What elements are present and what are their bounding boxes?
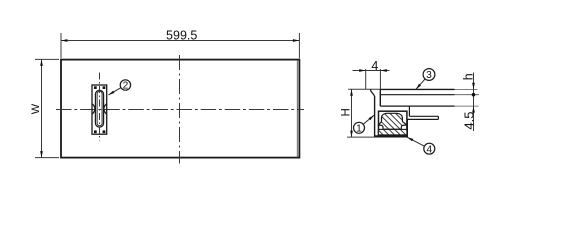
frame arm top (409, 115, 438, 117)
svg-text:W: W (30, 103, 42, 114)
corner dot TR (103, 86, 106, 89)
frame outer wall (374, 96, 376, 137)
balloon circle item 1 (354, 122, 365, 133)
leader arrowhead for balloon 2 (109, 91, 115, 95)
leader arrowhead for balloon 3 (416, 84, 421, 89)
right side arc (104, 104, 107, 114)
balloon circle item 2 (120, 80, 130, 90)
terminator dot between dims h and 4.5 (472, 93, 476, 97)
svg-text:1: 1 (356, 123, 362, 134)
dimension line 599.5 (61, 40, 299, 42)
frame bottom extension (left, for H) (347, 136, 375, 138)
svg-text:H: H (341, 108, 353, 116)
leader arrowhead for balloon 4 (407, 137, 413, 141)
frame chamfer corner (371, 89, 375, 96)
extension line right for dim 599.5 (298, 33, 300, 58)
extension stub from sheet bottom face (455, 94, 480, 96)
arrowhead left of dim 4 (359, 69, 366, 72)
balloon circle item 4 (424, 143, 435, 154)
leader line for balloon 4 (407, 137, 424, 146)
slot outer stadium (95, 90, 103, 127)
gasket channel box (379, 111, 407, 135)
svg-text:3: 3 (426, 70, 432, 81)
dimension line H (351, 89, 353, 137)
slot vertical centerline (99, 73, 101, 141)
svg-text:599.5: 599.5 (166, 29, 197, 43)
corner dot TL (94, 86, 97, 89)
leader line for balloon 2 (109, 88, 121, 95)
corner dot BR (103, 130, 106, 133)
sheet item 3 top face (380, 88, 454, 90)
arrowhead bottom of dim W (40, 151, 43, 158)
sheet item 3 bottom face (381, 94, 455, 96)
arrowhead of dim h (472, 83, 475, 90)
balloon circle item 3 (423, 69, 435, 81)
gasket base hatched (378, 129, 407, 135)
svg-text:4: 4 (371, 59, 378, 73)
dimension line h and 4.5 (473, 73, 475, 132)
arrowhead left of dim 599.5 (61, 39, 68, 42)
frame arm end cap (437, 116, 439, 119)
arrowhead right of dim 4 (380, 69, 387, 72)
frame bottom (thick) (375, 135, 408, 137)
arrowhead top of dim H (350, 89, 353, 96)
inner edge line (right side) (296, 60, 298, 157)
vertical centerline (179, 55, 181, 164)
arrowhead of dim 4.5 (472, 106, 475, 113)
dimension line W (41, 59, 43, 157)
arrowhead right of dim 599.5 (293, 39, 300, 42)
panel bottom face (380, 105, 454, 107)
slot inner stadium (97, 91, 102, 125)
leader line for balloon 1 (363, 115, 374, 124)
extension line left for dim 4 (365, 69, 367, 89)
svg-text:4.5: 4.5 (462, 112, 477, 130)
extension line top for dim W (35, 58, 59, 60)
svg-text:h: h (462, 73, 476, 80)
frame right wall (406, 119, 408, 137)
corner dot BL (94, 130, 97, 133)
frame web (ledge to arm) (408, 106, 410, 116)
inner wall / sheet left end (379, 89, 381, 106)
leader line for balloon 3 (416, 79, 425, 89)
extension stub from panel bottom face (455, 105, 479, 107)
extension line left for dim 599.5 (60, 33, 62, 58)
svg-text:4: 4 (426, 144, 432, 155)
arrowhead bottom of dim H (350, 131, 353, 138)
frame arm bottom (407, 118, 438, 120)
leader arrowhead for balloon 1 (369, 115, 375, 120)
svg-text:2: 2 (123, 81, 129, 92)
slot detail (item 2) outer rect (92, 85, 107, 134)
extension stub from sheet top face (455, 88, 478, 90)
extension line right for dim 4 (379, 69, 381, 89)
arrowhead top of dim W (40, 59, 43, 66)
top line / H extension + frame top (348, 88, 380, 90)
left side arc (92, 104, 95, 114)
gasket (item 4) mushroom dome hatched (378, 113, 406, 129)
dimension line 4 (353, 70, 390, 72)
horizontal centerline (56, 109, 304, 111)
extension line bottom for dim W (35, 157, 59, 159)
panel outline rectangle (61, 60, 299, 158)
